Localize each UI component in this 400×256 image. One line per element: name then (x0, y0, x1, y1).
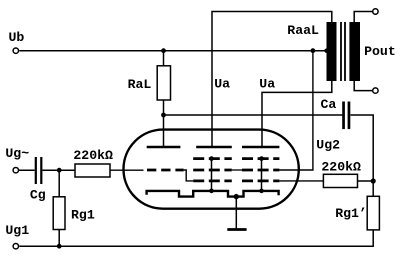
junction dot triode anode node (161, 113, 166, 118)
capacitor Ca (342, 102, 350, 130)
junction dot RaL top (161, 48, 166, 53)
transformer RaaL secondary bar (349, 22, 360, 81)
grid g3 row section 3 (242, 157, 279, 160)
capacitor Cg (35, 157, 43, 184)
grid g1 row section 2 (193, 180, 232, 183)
wire pentode g1 line to resistor (279, 180, 323, 182)
terminal Pout top (373, 9, 378, 14)
wire Cg to 220k (42, 169, 75, 171)
cathode (147, 191, 279, 197)
wire anode A3 to transformer bottom (262, 80, 332, 147)
wire input to Cg (19, 169, 35, 171)
ground (227, 228, 246, 231)
transformer core line 2 (344, 22, 346, 81)
grid g3 row section 2 (193, 157, 232, 160)
wire Ca to junction (350, 115, 373, 181)
svg-text:Cg: Cg (30, 187, 46, 202)
svg-text:Ug1: Ug1 (5, 223, 29, 238)
svg-text:Ub: Ub (9, 30, 25, 45)
svg-text:Ua: Ua (214, 77, 230, 92)
transformer RaaL primary bar (327, 22, 337, 81)
resistor Rg1' (367, 181, 379, 230)
svg-text:RaaL: RaaL (287, 23, 319, 38)
svg-text:220kΩ: 220kΩ (73, 148, 113, 163)
wire resistor to junction (358, 180, 374, 182)
wire secondary top lead (354, 12, 372, 24)
resistor 220k left (75, 164, 110, 177)
svg-text:Ug~: Ug~ (5, 146, 29, 161)
junction dot g1 node (371, 178, 376, 183)
wire anode A2 to transformer top (212, 12, 332, 148)
junction dot g3 section 2 (209, 156, 214, 161)
svg-text:Rg1: Rg1 (71, 207, 95, 222)
wire Ub rail (19, 50, 327, 52)
wire RaL bottom to anode A1 (163, 100, 165, 147)
svg-text:Rg1’: Rg1’ (335, 206, 367, 221)
svg-text:Ua: Ua (259, 77, 275, 92)
svg-text:Pout: Pout (364, 44, 396, 59)
tube envelope (124, 130, 299, 209)
svg-text:220kΩ: 220kΩ (321, 159, 361, 174)
terminal Ug1 (13, 244, 18, 249)
junction dot Ug2 on Ub rail (311, 48, 316, 53)
svg-text:Ug2: Ug2 (316, 137, 340, 152)
wire 220k to triode grid (110, 169, 144, 171)
wire g2 gap link (232, 169, 242, 171)
junction dot input node (57, 168, 62, 173)
wire g3 to cathode section 3 (261, 159, 263, 191)
terminal Pout bottom (373, 88, 378, 93)
terminal Ug~ (13, 168, 18, 173)
wire Ug2 screen-grid feed (279, 51, 313, 170)
wire ground rail (19, 230, 373, 246)
anode plate A1 (147, 146, 181, 149)
junction dot g3 section 3 (259, 156, 264, 161)
junction dot Ub rail at transformer (324, 49, 328, 53)
anode plate A3 (242, 146, 279, 149)
wire cathode to ground (235, 197, 237, 229)
junction dot cathode lead (234, 194, 239, 199)
wire triode grid elbow (184, 170, 194, 181)
resistor RaL (157, 51, 170, 100)
grid g2 row section 2 (193, 169, 232, 172)
transformer core line 1 (340, 22, 342, 81)
wire secondary bottom lead (354, 80, 372, 91)
svg-text:RaL: RaL (128, 77, 152, 92)
grid g1 triode row (147, 169, 184, 172)
grid g2 row section 3 (242, 169, 279, 172)
junction dot Rg1 bottom (57, 244, 62, 249)
resistor Rg1 (53, 170, 65, 246)
anode plate A2 (196, 146, 232, 149)
grid g1 row section 3 (242, 180, 279, 183)
terminal Ub (13, 48, 18, 53)
wire g3 to cathode section 2 (211, 159, 213, 191)
junction dot cathode section 3 (259, 189, 264, 194)
junction dot cathode section 2 (209, 189, 214, 194)
wire anode node to Ca (164, 114, 343, 116)
svg-text:Ca: Ca (321, 97, 337, 112)
resistor 220k right (323, 174, 357, 187)
